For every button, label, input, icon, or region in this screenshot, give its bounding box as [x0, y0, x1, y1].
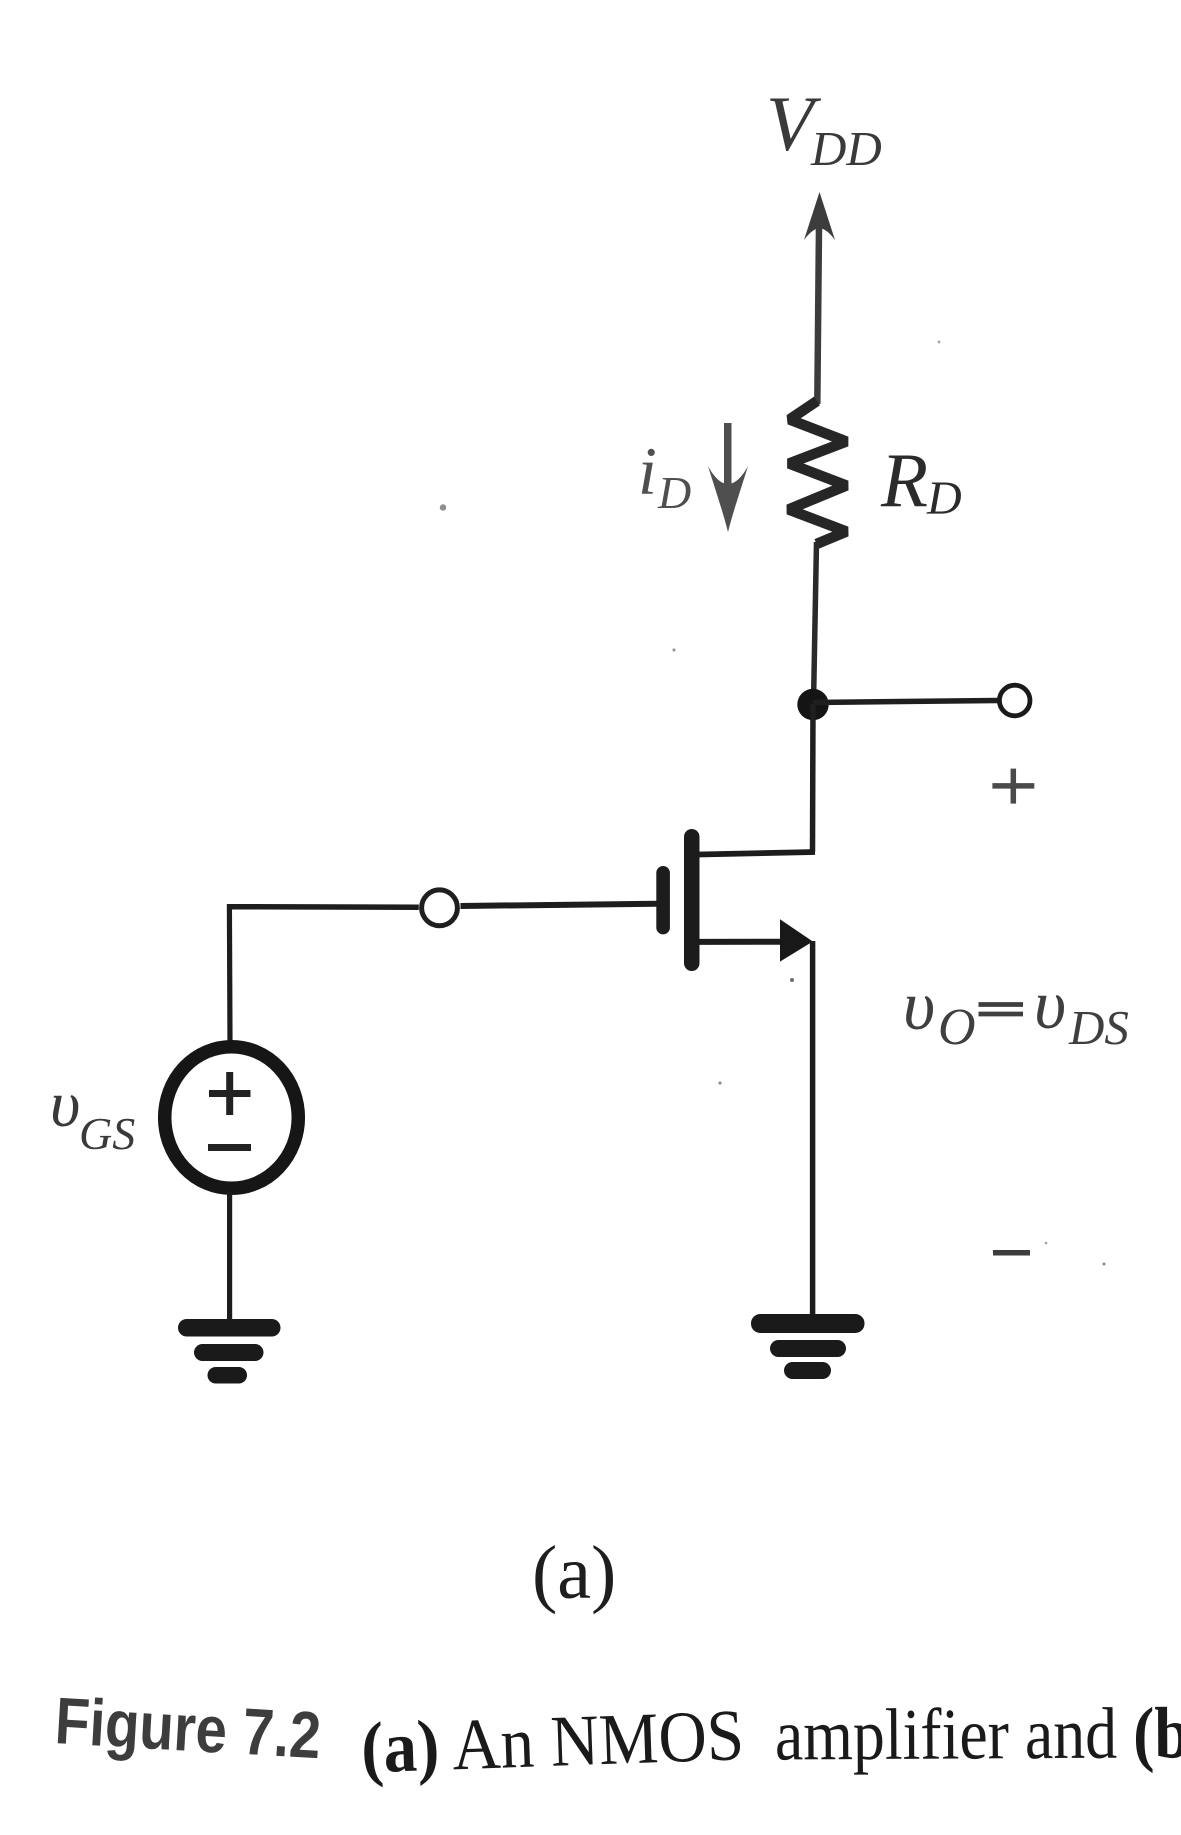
- label iD: [638, 433, 691, 518]
- svg-text:υ: υ: [1034, 967, 1066, 1044]
- caption Figure 7.2: [53, 1683, 1181, 1788]
- svg-text:(a): (a): [532, 1531, 616, 1615]
- ground right: [751, 1314, 865, 1379]
- svg-text:(a) An NMOS: (a) An NMOS: [360, 1694, 746, 1788]
- node drain junction: [797, 689, 828, 720]
- voltage source vGS: [165, 1047, 299, 1189]
- minus sign output: [993, 1250, 1030, 1256]
- transistor Q1: [656, 829, 813, 971]
- svg-text:i: i: [638, 433, 657, 509]
- svg-text:amplifier and (b: amplifier and (b: [775, 1692, 1181, 1775]
- label RD: [880, 437, 962, 525]
- wire node to output terminal: [813, 701, 998, 703]
- ground left: [178, 1319, 281, 1384]
- svg-text:R: R: [880, 437, 928, 523]
- wire gate corner down to source vGS: [227, 904, 233, 1044]
- output terminal circle: [999, 685, 1030, 716]
- gate terminal circle: [422, 890, 458, 926]
- svg-text:O: O: [938, 999, 976, 1056]
- svg-text:υ: υ: [903, 968, 935, 1045]
- plus sign output: [992, 769, 1034, 804]
- svg-text:υ: υ: [50, 1068, 80, 1141]
- svg-text:GS: GS: [79, 1108, 135, 1159]
- drain wire: [699, 852, 815, 855]
- wire VDD arrow stem to RD: [817, 226, 819, 404]
- svg-text:D: D: [926, 472, 962, 525]
- wire vGS to ground left: [227, 1192, 232, 1324]
- svg-text:Figure 7.2: Figure 7.2: [53, 1683, 323, 1772]
- current arrow iD: [708, 423, 748, 532]
- wire node to drain corner: [810, 704, 816, 852]
- label vGS: [50, 1068, 135, 1159]
- gate wire left of circle: [227, 904, 419, 910]
- resistor RD: [789, 401, 847, 544]
- VDD arrow: [804, 192, 835, 240]
- svg-text:DS: DS: [1068, 1000, 1129, 1055]
- wire RD to drain node: [814, 542, 817, 703]
- wire source to ground right: [810, 941, 816, 1320]
- svg-text:DD: DD: [810, 121, 882, 176]
- gate wire right of circle: [461, 904, 657, 906]
- scan specks: [440, 341, 1106, 1266]
- net VDD label: [766, 80, 882, 176]
- svg-text:D: D: [657, 467, 691, 518]
- label vO = vDS: [903, 967, 1129, 1056]
